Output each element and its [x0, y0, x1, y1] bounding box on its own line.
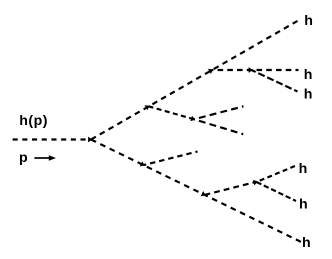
wire top main branch V0 to top-right h — [91, 21, 298, 140]
wire incoming hadron line h(p) — [13, 138, 91, 140]
arrow momentum direction — [34, 155, 56, 161]
node V0 main vertex arrowhead — [88, 137, 92, 143]
node V4 vertex arrowhead — [140, 161, 145, 166]
svg-text:h: h — [302, 235, 311, 251]
wire sub-branch to third h — [252, 70, 298, 92]
wire branch V1 to V3 — [149, 106, 195, 119]
node V3 vertex arrowhead — [190, 116, 195, 122]
wire upper stub from V3 — [194, 106, 244, 119]
svg-text:h: h — [304, 67, 313, 83]
node V5 vertex arrowhead — [201, 191, 206, 196]
node B1 fork arrowhead — [249, 67, 253, 73]
svg-text:h(p): h(p) — [19, 113, 48, 129]
node V1 vertex arrowhead — [145, 105, 150, 110]
wire stub from V4 — [144, 152, 198, 166]
node V2 vertex arrowhead — [208, 69, 213, 74]
svg-text:h: h — [299, 197, 308, 213]
wire lower stub from V3 — [194, 119, 243, 134]
svg-text:h: h — [304, 87, 313, 103]
wire horizontal branch V2 to middle h — [212, 69, 299, 71]
svg-text:h: h — [299, 161, 308, 177]
wire bottom main branch V0 to bottom-right h — [91, 140, 301, 242]
svg-text:h: h — [304, 13, 313, 29]
svg-text:p: p — [19, 150, 28, 166]
node V6 vertex arrowhead — [253, 180, 258, 186]
wire upper branch V6 to fourth h — [257, 166, 297, 182]
wire lower branch V6 to fifth h — [257, 182, 297, 201]
wire branch V5 to V6 — [205, 182, 257, 195]
